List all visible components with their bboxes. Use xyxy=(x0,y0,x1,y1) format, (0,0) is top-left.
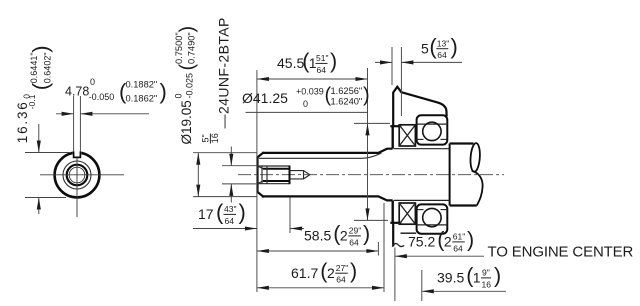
svg-text:-0.050: -0.050 xyxy=(89,92,115,102)
svg-text:64: 64 xyxy=(225,216,235,226)
svg-text:0: 0 xyxy=(303,99,308,109)
boss underside line xyxy=(401,232,417,234)
tapped hole outer lines xyxy=(258,166,290,184)
ball bearing bottom xyxy=(417,204,448,233)
ball bearing top xyxy=(417,115,448,144)
svg-text:4.78: 4.78 xyxy=(65,85,89,99)
end view outer circle xyxy=(55,149,100,198)
shaft outline xyxy=(258,149,392,201)
svg-text:24UNF-2BTAP: 24UNF-2BTAP xyxy=(216,17,232,114)
dimension 75.2 xyxy=(395,248,484,302)
svg-text:58.5: 58.5 xyxy=(304,228,331,244)
svg-text:): ) xyxy=(350,259,357,283)
svg-text:): ) xyxy=(28,45,53,52)
dimension 5/16 thread xyxy=(222,147,257,203)
svg-text:0.1862": 0.1862" xyxy=(126,94,158,104)
label 39.5 xyxy=(437,264,501,290)
bearing journal bottom line xyxy=(394,199,450,201)
label 16.36 rotated xyxy=(15,45,53,143)
svg-text:): ) xyxy=(330,49,337,73)
end view horizontal centerline xyxy=(40,174,124,176)
drill point xyxy=(290,171,310,179)
svg-text:1.6240": 1.6240" xyxy=(331,96,363,106)
svg-text:2: 2 xyxy=(340,228,348,244)
end view thread inner circle xyxy=(69,167,85,183)
svg-text:16: 16 xyxy=(210,133,220,143)
svg-text:0.7490": 0.7490" xyxy=(186,32,196,64)
dimension 5 xyxy=(375,47,462,116)
svg-text:): ) xyxy=(451,34,458,59)
dimension 17 xyxy=(193,198,304,234)
label 5/16-24UNF-2BTAP rotated xyxy=(201,133,221,143)
label 75.2 xyxy=(408,228,474,254)
dimension 45.5 xyxy=(257,77,368,81)
svg-text:-0.1: -0.1 xyxy=(27,94,37,109)
label 45.5 xyxy=(277,49,337,75)
keyway extension line right xyxy=(79,96,81,151)
crankcase bottom wall xyxy=(392,223,394,246)
crankcase top contour xyxy=(393,87,446,126)
svg-text:75.2: 75.2 xyxy=(408,234,435,250)
bottom break squiggle xyxy=(392,244,404,247)
svg-text:0.6441": 0.6441" xyxy=(29,52,39,83)
svg-text:1: 1 xyxy=(473,270,481,286)
svg-text:—: — xyxy=(216,115,232,129)
svg-text:1.6256": 1.6256" xyxy=(331,86,363,96)
svg-text:64: 64 xyxy=(349,237,359,247)
tapped hole thread lines xyxy=(263,169,290,181)
hole mouth chamfer xyxy=(258,166,268,184)
crank web bottom edge xyxy=(450,204,477,206)
dimension 16.36 vertical line and arrows xyxy=(25,124,71,214)
oil seal top xyxy=(399,125,415,146)
label 58.5 xyxy=(304,222,370,248)
keyway extension line left xyxy=(73,96,75,151)
dimension Ø19.05 vertical xyxy=(193,153,257,197)
svg-text:27": 27" xyxy=(336,263,348,273)
svg-text:): ) xyxy=(494,264,501,288)
svg-text:): ) xyxy=(239,200,246,225)
svg-text:(: ( xyxy=(216,200,224,225)
svg-text:64: 64 xyxy=(317,65,327,75)
svg-text:0.7500": 0.7500" xyxy=(174,32,184,64)
spigot tip face bottom xyxy=(392,200,394,222)
end view vertical centerline xyxy=(76,158,78,217)
label 17 xyxy=(198,200,246,226)
break S-curve xyxy=(470,143,483,206)
svg-text:TO ENGINE CENTER: TO ENGINE CENTER xyxy=(488,243,634,260)
end view tapped hole thick circle xyxy=(67,165,88,186)
svg-text:43": 43" xyxy=(224,204,236,214)
svg-text:61": 61" xyxy=(453,232,465,242)
svg-text:17: 17 xyxy=(198,206,214,222)
svg-text:+0.039: +0.039 xyxy=(296,86,324,96)
svg-text:0.1882": 0.1882" xyxy=(126,80,158,90)
crank web face xyxy=(449,144,451,206)
spigot top edge xyxy=(391,125,400,127)
svg-text:Ø41.25: Ø41.25 xyxy=(242,90,288,106)
svg-text:16: 16 xyxy=(482,279,492,289)
extension line shaft end face xyxy=(256,70,258,292)
keyway bottom line side view xyxy=(259,153,382,158)
bearing journal top line xyxy=(394,148,450,150)
svg-text:0: 0 xyxy=(90,77,95,87)
end view keyway slot xyxy=(74,151,81,157)
side view centerline xyxy=(238,174,504,176)
label 4.78 xyxy=(65,77,167,104)
dimension 39.5 xyxy=(422,270,506,301)
svg-text:): ) xyxy=(363,84,370,106)
svg-text:5: 5 xyxy=(421,40,429,56)
dimension line Ø41.25 vertical xyxy=(246,68,391,221)
svg-text:29": 29" xyxy=(349,226,361,236)
spigot tip face top xyxy=(392,126,394,149)
svg-text:-0.025: -0.025 xyxy=(184,73,194,99)
dimension 4.78 line and arrows xyxy=(56,112,149,116)
svg-text:39.5: 39.5 xyxy=(437,270,464,286)
oil seal bottom xyxy=(399,203,415,224)
svg-text:64: 64 xyxy=(336,275,346,285)
spigot bottom edge xyxy=(391,222,400,224)
crank web top edge xyxy=(450,142,474,144)
svg-text:Ø19.05: Ø19.05 xyxy=(179,100,194,144)
svg-text:45.5: 45.5 xyxy=(277,55,304,71)
thread end line xyxy=(289,166,291,185)
svg-text:5": 5" xyxy=(201,134,211,142)
svg-text:64: 64 xyxy=(453,243,463,253)
svg-text:): ) xyxy=(176,26,198,33)
svg-text:0.6402": 0.6402" xyxy=(42,52,52,83)
svg-text:2: 2 xyxy=(444,234,452,250)
svg-text:51": 51" xyxy=(316,53,328,63)
end view chamfer circle xyxy=(63,161,91,189)
label Ø19.05 rotated xyxy=(173,26,198,145)
dimension 58.5 xyxy=(257,242,379,256)
svg-text:2: 2 xyxy=(327,265,335,281)
label 5 xyxy=(421,34,458,60)
dimension 61.7 xyxy=(257,203,384,292)
svg-text:61.7: 61.7 xyxy=(291,265,318,281)
svg-text:): ) xyxy=(467,228,474,252)
label Ø41.25 xyxy=(242,84,370,109)
svg-text:13": 13" xyxy=(437,39,449,49)
svg-text:): ) xyxy=(160,79,167,104)
svg-text:64: 64 xyxy=(437,50,447,60)
svg-text:): ) xyxy=(363,222,370,246)
svg-text:0: 0 xyxy=(173,93,183,98)
svg-text:9": 9" xyxy=(482,268,490,278)
label 61.7 xyxy=(291,259,357,285)
